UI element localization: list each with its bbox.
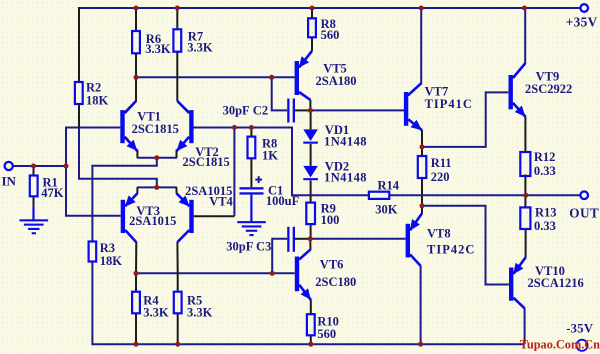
label VT4 2SA1015 xyxy=(185,184,233,208)
node VT4 base tap xyxy=(232,125,237,130)
wire R13 bottom to VT10 emitter xyxy=(525,229,527,257)
svg-text:1N4148: 1N4148 xyxy=(324,171,367,185)
node top rail junctions xyxy=(134,6,528,11)
wire R6 top lead xyxy=(135,8,137,31)
wire IN to base column xyxy=(13,165,66,167)
label R5 3.3K xyxy=(187,294,213,320)
svg-text:IN: IN xyxy=(2,173,17,188)
node VT7 emitter xyxy=(420,144,425,149)
label VT9 2SC2922 xyxy=(525,70,572,96)
wire R8 top lead xyxy=(311,8,313,18)
resistor R4 3.3K xyxy=(132,292,140,314)
wire C2 left branch xyxy=(272,77,288,110)
svg-text:3.3K: 3.3K xyxy=(187,306,213,320)
diode VD2 1N4148 xyxy=(303,166,318,180)
node IN junction xyxy=(64,164,69,169)
label R10 560 xyxy=(317,314,339,341)
label R3 18K xyxy=(100,241,123,268)
svg-text:560: 560 xyxy=(321,28,340,42)
svg-text:R2: R2 xyxy=(86,81,101,95)
wire R1 bottom lead xyxy=(33,196,35,206)
svg-text:3.3K: 3.3K xyxy=(187,41,213,55)
label R1 47K xyxy=(41,175,64,200)
capacitor C3 30pF xyxy=(287,227,295,252)
wire VT10 collector to rail xyxy=(524,308,526,344)
wire VT7 collector to rail xyxy=(408,8,421,96)
label VT8 TIP42C xyxy=(427,227,475,257)
label VT10 2SCA1216 xyxy=(528,264,584,290)
node OUT junction xyxy=(523,193,528,198)
wire VT9 collector to rail xyxy=(513,8,525,78)
diode VD1 1N4148 xyxy=(303,129,318,143)
wire VT5 collector lead xyxy=(309,100,311,111)
wire R7 top lead xyxy=(176,8,178,29)
wire R3 tail to NPN pair emitters xyxy=(92,159,156,242)
label R8 1K xyxy=(262,137,278,163)
wire R11 top lead xyxy=(421,147,423,156)
wire VT1 emitter lead xyxy=(136,150,138,158)
svg-text:47K: 47K xyxy=(41,186,64,200)
label R7 3.3K xyxy=(187,30,213,55)
resistor R6 3.3K xyxy=(132,31,140,53)
svg-text:2SA180: 2SA180 xyxy=(316,74,357,88)
wire R12 bottom lead xyxy=(524,174,526,195)
wire R2 tail to PNP pair emitters xyxy=(79,104,157,186)
svg-text:2SC1815: 2SC1815 xyxy=(183,155,230,169)
svg-text:Tupao.Com.Cn: Tupao.Com.Cn xyxy=(520,337,600,351)
wire VT4 emitter lead xyxy=(176,187,178,193)
svg-text:2SC180: 2SC180 xyxy=(315,275,356,289)
svg-text:TIP42C: TIP42C xyxy=(427,242,475,256)
wire VT3 emitter lead xyxy=(136,187,138,193)
label R12 0.33 xyxy=(534,150,556,178)
label R14 30K xyxy=(375,178,399,216)
wire VD1 anode lead xyxy=(310,110,312,129)
svg-text:R11: R11 xyxy=(431,156,452,170)
node C2 tap on VT5 base wire xyxy=(269,75,274,80)
svg-text:0.33: 0.33 xyxy=(534,164,556,178)
transistor VT8 TIP42C xyxy=(406,213,422,266)
label C2 30pF xyxy=(223,104,268,118)
wire VT6 collector lead xyxy=(309,239,311,250)
wire R4 leads xyxy=(135,273,137,291)
label R2 18K xyxy=(86,81,109,108)
wire VT1 collector xyxy=(125,77,136,112)
svg-text:R13: R13 xyxy=(535,206,557,220)
node bottom rail junctions xyxy=(134,342,424,347)
svg-text:1K: 1K xyxy=(262,149,278,163)
wire R1 top lead xyxy=(33,166,35,176)
svg-text:1N4148: 1N4148 xyxy=(324,134,367,148)
transistor VT7 TIP41C xyxy=(404,83,422,130)
resistor R10 560 xyxy=(307,314,315,335)
transistor VT4 2SA1015 xyxy=(177,193,194,242)
label R11 220 xyxy=(431,156,452,184)
wire VT4 collector lead xyxy=(176,242,178,273)
svg-text:18K: 18K xyxy=(100,254,123,268)
wire +35V top rail xyxy=(79,7,580,9)
terminal IN xyxy=(5,162,13,170)
svg-text:R3: R3 xyxy=(100,241,115,255)
resistor R13 0.33 xyxy=(520,207,530,229)
svg-text:2SA1015: 2SA1015 xyxy=(129,214,176,228)
label R9 100 xyxy=(321,202,340,227)
transistor VT6 2SC180 xyxy=(295,249,311,300)
svg-text:OUT: OUT xyxy=(569,206,599,221)
wire VT2 emitter lead xyxy=(176,150,178,158)
wire C3 left branch xyxy=(272,239,287,273)
svg-text:R14: R14 xyxy=(378,178,400,192)
wire feedback VT2 base to R14 xyxy=(194,128,369,196)
label VT6 2SC180 xyxy=(315,257,356,289)
svg-text:560: 560 xyxy=(317,327,336,341)
wire R8b bottom lead to C1 xyxy=(250,158,252,187)
svg-text:220: 220 xyxy=(431,170,450,184)
resistor R3 18K xyxy=(89,242,97,262)
terminal +35V xyxy=(580,4,588,12)
label VD2 1N4148 xyxy=(324,159,367,184)
wire VT6 emitter lead to R10 xyxy=(310,300,312,315)
wire VT9 emitter lead to R12 xyxy=(524,117,526,152)
wire lower VAS node to VT6 base xyxy=(135,272,295,274)
svg-text:VT6: VT6 xyxy=(320,257,344,271)
svg-text:C2: C2 xyxy=(253,104,268,118)
wire R9 bottom lead xyxy=(310,224,312,239)
resistor R8 560 xyxy=(308,18,316,37)
ground C1 xyxy=(237,221,266,236)
wire R11 bottom lead xyxy=(421,178,423,206)
svg-text:30K: 30K xyxy=(375,202,398,216)
wire VT8 collector to rail xyxy=(420,266,422,344)
wire R13 top lead xyxy=(524,195,526,207)
svg-text:30pF C3: 30pF C3 xyxy=(226,240,271,254)
wire R8b top lead xyxy=(250,128,252,137)
wire VT1 VT2 emitter join xyxy=(137,157,177,159)
terminal OUT xyxy=(580,191,588,199)
wire R5 leads xyxy=(177,273,179,291)
svg-text:0.33: 0.33 xyxy=(534,219,556,233)
node VT3 collector / R4 xyxy=(134,271,139,276)
wire C1 to ground xyxy=(250,195,252,222)
wire VD1 cathode to VD2 anode xyxy=(310,144,312,166)
resistor R12 0.33 xyxy=(520,152,530,176)
wire VT8e node to VT10 base xyxy=(422,206,509,285)
label VT2 2SC1815 xyxy=(183,145,230,169)
svg-text:2SC2922: 2SC2922 xyxy=(525,82,572,96)
resistor R5 3.3K xyxy=(174,292,182,314)
svg-text:100: 100 xyxy=(321,213,340,227)
resistor R8 1K xyxy=(248,137,256,159)
wire C2 right to VT5 collector node xyxy=(295,109,310,111)
wire VT8 emitter lead xyxy=(421,206,423,214)
wire node VT6c to VT8 base xyxy=(310,238,405,240)
label VT7 TIP41C xyxy=(425,85,473,111)
wire VT7 emitter lead xyxy=(421,130,423,147)
svg-text:+35V: +35V xyxy=(566,15,598,30)
wire OUT line R14 to terminal xyxy=(389,194,580,196)
node VT8 emitter xyxy=(420,203,425,208)
svg-text:3.3K: 3.3K xyxy=(143,306,169,320)
label R8 560 xyxy=(321,17,340,42)
watermark circle xyxy=(576,340,587,351)
wire R2 top lead xyxy=(78,7,80,82)
label R6 3.3K xyxy=(145,32,171,56)
label C1 100uF xyxy=(266,184,300,209)
wire VT7e to VT9 base xyxy=(422,92,508,146)
wire -35V bottom rail xyxy=(92,261,524,344)
transistor VT10 2SCA1216 xyxy=(509,257,526,308)
label R4 3.3K xyxy=(143,294,169,320)
label VT1 2SC1815 xyxy=(132,109,179,136)
wire VT3 VT4 emitter join xyxy=(137,186,177,188)
node R6 bottom / VT1 collector xyxy=(134,75,139,80)
wire C3 right to VT6 collector node xyxy=(295,238,310,240)
wire R10 bottom lead xyxy=(310,335,312,344)
svg-text:3.3K: 3.3K xyxy=(145,42,171,56)
ground R1 xyxy=(20,219,49,234)
wire node VT5c to VT7 base xyxy=(310,109,404,111)
svg-text:18K: 18K xyxy=(86,94,109,108)
transistor VT3 2SA1015 xyxy=(121,193,138,242)
label VD1 1N4148 xyxy=(324,123,367,149)
node R1 tap xyxy=(31,164,36,169)
transistor VT1 2SC1815 xyxy=(120,101,137,151)
resistor R1 47K xyxy=(30,176,38,197)
svg-text:2SCA1216: 2SCA1216 xyxy=(528,276,584,290)
resistor R2 18K xyxy=(75,82,83,104)
svg-text:100uF: 100uF xyxy=(266,194,300,208)
transistor VT5 2SA180 xyxy=(295,51,312,100)
wire R7 bottom to VT2 collector xyxy=(176,52,178,101)
label R13 0.33 xyxy=(534,206,557,234)
wire R6 bottom to VT5 base xyxy=(135,53,137,70)
capacitor C2 30pF xyxy=(287,99,295,123)
svg-text:-35V: -35V xyxy=(566,322,593,336)
svg-text:VT4: VT4 xyxy=(209,194,233,208)
wire VT5 emitter lead xyxy=(311,37,313,51)
wire VT4 base xyxy=(194,215,235,217)
node C3 tap / VT6 base xyxy=(270,271,275,276)
node R8b tap xyxy=(249,125,254,130)
svg-text:VT8: VT8 xyxy=(427,227,451,241)
resistor R14 30K xyxy=(369,192,389,199)
label VT5 2SA180 xyxy=(316,61,357,88)
wire VD2 cathode to R9 xyxy=(310,180,312,202)
transistor VT2 2SC1815 xyxy=(177,101,194,151)
svg-text:R12: R12 xyxy=(534,150,556,164)
resistor R9 100 xyxy=(306,203,315,225)
label VT3 2SA1015 xyxy=(129,204,176,228)
capacitor C1 100uF xyxy=(240,176,264,194)
node VT5 collector xyxy=(308,108,313,113)
node VT6 collector xyxy=(308,236,313,241)
node VT1 VT2 emitters xyxy=(154,155,159,160)
wire VT3 collector lead xyxy=(135,242,137,273)
svg-text:TIP41C: TIP41C xyxy=(425,97,473,111)
svg-text:30pF: 30pF xyxy=(223,104,250,118)
svg-text:2SC1815: 2SC1815 xyxy=(132,122,179,136)
node VT3 VT4 emitters xyxy=(154,185,159,190)
transistor VT9 2SC2922 xyxy=(509,63,526,116)
resistor R7 3.3K xyxy=(173,29,181,51)
resistor R11 220 xyxy=(418,156,427,178)
wire VT1 base xyxy=(66,128,121,216)
